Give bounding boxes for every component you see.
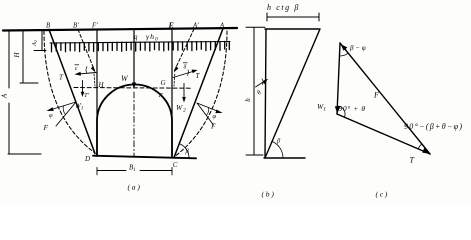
svg-text:(a): (a): [128, 183, 142, 192]
dimension A (left outer): [8, 31, 41, 155]
svg-text:γh0: γh0: [146, 32, 159, 43]
figure c: arc beta-phi: [340, 53, 349, 56]
arrowhead W2: [182, 97, 186, 103]
figure c: T side: [337, 114, 430, 154]
angle arc delta right: [187, 70, 190, 76]
svg-text:A: A: [1, 93, 9, 99]
short dashes below right arrowhead: [173, 74, 176, 86]
svg-text:F: F: [373, 91, 379, 100]
figure b: beta arc: [272, 141, 283, 158]
svg-text:θ: θ: [256, 89, 264, 97]
svg-text:(c): (c): [376, 190, 390, 199]
arrowhead F-normal right: [215, 110, 222, 114]
dashed slip curve right A-C: [174, 31, 227, 157]
svg-text:A: A: [219, 23, 225, 30]
svg-text:F: F: [43, 123, 49, 132]
arrowhead T right: [192, 70, 198, 74]
surcharge band line: [50, 42, 230, 44]
T arrow left (horizontal): [76, 73, 96, 75]
svg-text:β: β: [276, 138, 281, 145]
vertical E-G (right arch wall extended): [171, 28, 173, 158]
delta overbar: [183, 62, 188, 64]
vertical F'-H (left arch wall extended): [96, 30, 98, 156]
T arrow right (horizontal): [173, 71, 196, 78]
svg-text:β − φ: β − φ: [349, 44, 366, 52]
figure b: h dimension: [246, 27, 265, 155]
svg-text:T: T: [59, 74, 64, 82]
svg-text:h: h: [244, 98, 252, 102]
figure b: top dimension h ctg beta: [267, 13, 319, 21]
angle arc beta at C: [180, 144, 190, 158]
epsilon overbar: [75, 64, 80, 66]
F reaction rays left: [48, 102, 76, 126]
dimension B1: [97, 168, 172, 175]
svg-text:φ: φ: [213, 113, 217, 120]
wall line A-C: [174, 29, 223, 158]
arrowhead F-normal left: [47, 107, 54, 111]
figure b: theta arc: [262, 79, 263, 85]
svg-text:H: H: [13, 52, 21, 59]
short dashes below left arrowhead: [94, 74, 95, 86]
svg-text:A1: A1: [31, 40, 38, 47]
arrowheads: [47, 44, 430, 154]
arrowhead W centre: [132, 83, 136, 90]
surcharge comb ticks q: [52, 42, 230, 52]
svg-text:A′: A′: [192, 23, 199, 30]
dashed line A'-G: [175, 29, 195, 71]
arrowhead c W down: [335, 106, 340, 113]
figure c: F side: [340, 43, 430, 154]
dashed slip curve left B-D: [44, 31, 95, 153]
dashed line B'-H: [78, 30, 95, 71]
figure c: arc 90+theta: [337, 106, 345, 117]
arch profile: [97, 85, 172, 156]
svg-text:W1: W1: [317, 102, 326, 113]
ground surface line: [3, 28, 237, 31]
arrowhead c F up: [341, 44, 348, 51]
svg-text:G: G: [161, 79, 166, 87]
svg-text:h ctg β: h ctg β: [267, 3, 300, 12]
svg-text:T′: T′: [84, 92, 90, 99]
figure b: theta arrow: [256, 80, 268, 88]
dashed springing line H-G: [74, 87, 191, 90]
svg-text:T′: T′: [158, 92, 164, 99]
centre line W (solid above crown): [133, 29, 135, 84]
figure b: triangle: [265, 29, 320, 158]
arrowhead A'-G: [174, 66, 179, 72]
svg-text:90° + θ: 90° + θ: [339, 104, 366, 113]
svg-text:δ: δ: [184, 65, 187, 71]
W2 force arrow: [183, 84, 185, 100]
floor line D-C: [93, 156, 196, 159]
W1 force arrow: [82, 81, 84, 94]
arrowhead T left: [75, 72, 82, 76]
centre line (dash-dot below crown): [133, 92, 135, 157]
dimension A1: [34, 30, 46, 51]
svg-text:W: W: [121, 74, 129, 83]
figure b: base line: [264, 157, 305, 159]
svg-text:90°−(β+θ−φ): 90°−(β+θ−φ): [404, 122, 463, 131]
svg-text:F: F: [210, 122, 216, 131]
angle arc epsilon left: [86, 67, 87, 73]
svg-text:C: C: [173, 161, 178, 169]
svg-text:E: E: [168, 21, 174, 30]
svg-text:ε: ε: [75, 66, 78, 72]
arrowhead B'-H: [91, 66, 96, 72]
svg-text:B1: B1: [129, 164, 136, 174]
svg-text:(b): (b): [262, 190, 276, 199]
svg-text:D: D: [84, 155, 90, 163]
svg-text:H: H: [98, 81, 105, 89]
arrowhead W1: [81, 92, 85, 97]
svg-text:W2: W2: [176, 103, 187, 114]
svg-text:φ: φ: [49, 112, 53, 119]
angle arc phi right: [206, 108, 208, 116]
dimension H: [20, 31, 38, 83]
F reaction rays right: [197, 103, 221, 125]
svg-text:F′: F′: [91, 23, 98, 30]
figure c: W side: [337, 43, 340, 114]
svg-text:B: B: [46, 23, 50, 30]
svg-text:q: q: [134, 33, 138, 41]
wall line B-D: [49, 30, 95, 154]
angle arc phi left: [63, 106, 65, 115]
svg-text:B′: B′: [73, 23, 79, 30]
figure c: arc at T vertex: [418, 144, 422, 149]
arrowhead b theta: [263, 79, 269, 85]
svg-text:T: T: [196, 72, 201, 80]
arrowhead c T at vertex: [422, 148, 429, 154]
svg-text:T: T: [410, 156, 415, 165]
